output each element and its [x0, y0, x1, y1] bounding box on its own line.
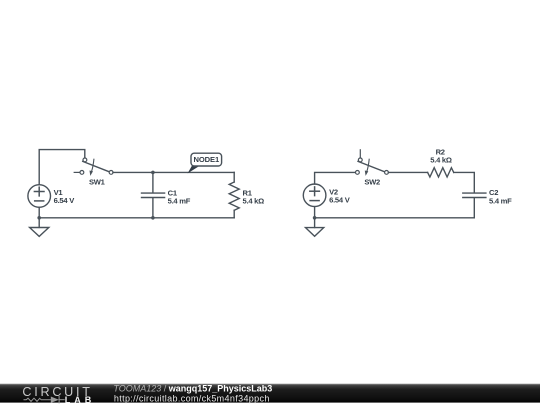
junction dot C1 bottom	[151, 216, 155, 220]
junction dot V1 bottom	[37, 216, 41, 220]
svg-text:5.4 mF: 5.4 mF	[489, 197, 512, 206]
wire V2 top to SW2 left throw	[315, 172, 356, 184]
svg-text:5.4 mF: 5.4 mF	[168, 197, 191, 206]
wire V2 bottom to ground	[314, 207, 316, 228]
label V2 6.54 V	[329, 187, 351, 204]
voltage source V2	[303, 184, 326, 207]
wire bottom rail left circuit	[39, 217, 234, 219]
junction dot C1 top	[151, 171, 155, 175]
wire top rail SW1 to R1	[113, 171, 234, 173]
svg-text:SW1: SW1	[89, 178, 106, 187]
CircuitLab logo doodle (resistor + diode)	[24, 397, 64, 403]
footer bar	[0, 384, 540, 403]
svg-text:http://circuitlab.com/ck5m4nf3: http://circuitlab.com/ck5m4nf34ppch	[114, 393, 270, 403]
voltage source V1	[28, 185, 51, 208]
wire V1 top to SW1 common	[39, 150, 85, 185]
ground right	[306, 228, 324, 237]
svg-text:TOOMA123 / wangq157_PhysicsLab: TOOMA123 / wangq157_PhysicsLab3	[113, 384, 272, 394]
wire bottom rail right circuit	[315, 217, 475, 219]
label R1 5.4 kOhm	[243, 188, 265, 205]
wire R2 to C2	[454, 172, 475, 192]
label C1 5.4 mF	[168, 188, 191, 205]
svg-text:5.4 kΩ: 5.4 kΩ	[430, 156, 452, 165]
resistor R2	[428, 168, 454, 177]
switch SW2	[356, 150, 389, 176]
ground left	[30, 228, 49, 237]
label R2 5.4 kOhm	[430, 147, 452, 164]
resistor R1	[229, 172, 239, 217]
capacitor C2	[463, 193, 486, 218]
svg-text:5.4 kΩ: 5.4 kΩ	[243, 197, 265, 206]
switch SW1	[74, 158, 113, 176]
svg-text:C2: C2	[489, 188, 498, 197]
svg-text:6.54 V: 6.54 V	[54, 196, 76, 205]
wire V1 bottom to ground	[38, 207, 40, 227]
label C2 5.4 mF	[489, 188, 512, 206]
svg-text:LAB: LAB	[65, 395, 96, 405]
junction dot V2 bottom	[313, 216, 317, 220]
node flag NODE1	[188, 153, 222, 173]
capacitor C1	[142, 172, 165, 217]
svg-text:SW2: SW2	[364, 178, 380, 187]
wire SW2 to R2	[388, 171, 427, 173]
svg-text:NODE1: NODE1	[193, 155, 220, 164]
svg-text:6.54 V: 6.54 V	[329, 196, 351, 205]
label V1 6.54 V	[54, 188, 76, 205]
